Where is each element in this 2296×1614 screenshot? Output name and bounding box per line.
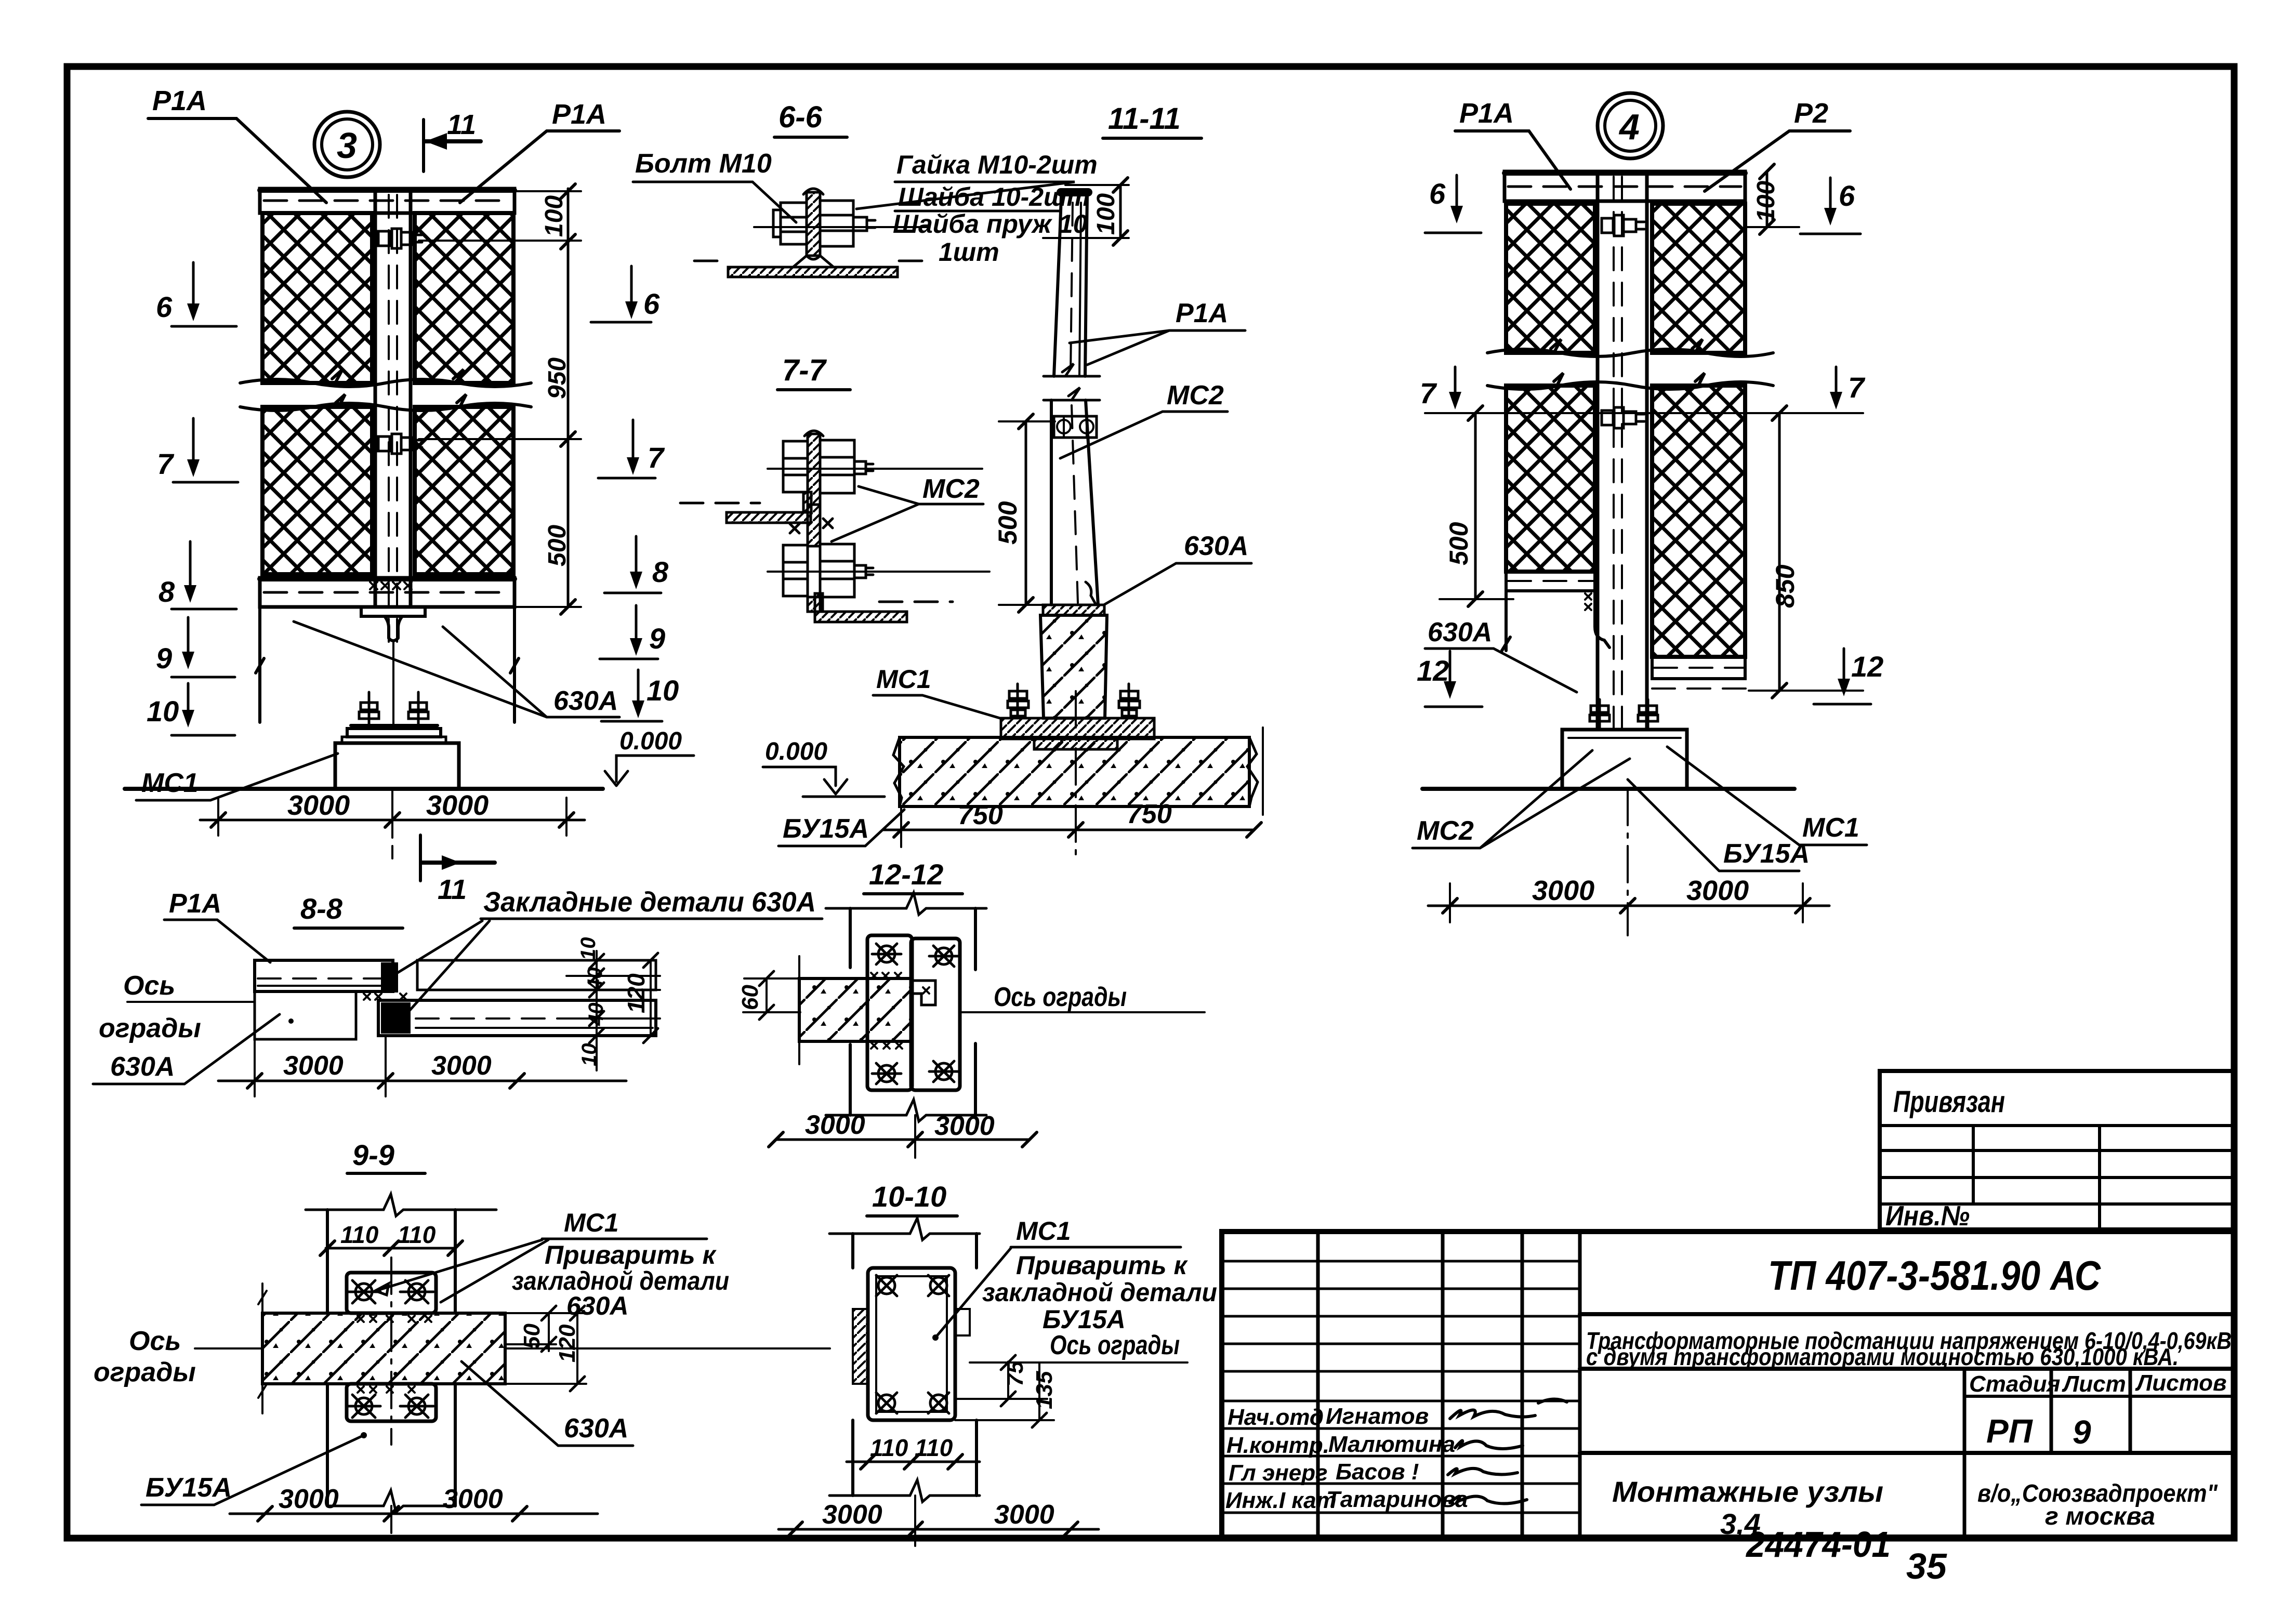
svg-text:Н.контр.: Н.контр. (1226, 1433, 1329, 1458)
svg-text:850: 850 (1771, 564, 1800, 608)
view 4 marker circle (1598, 93, 1663, 158)
anchor bolt right (11-11) (1119, 684, 1140, 718)
svg-text:8-8: 8-8 (300, 892, 343, 925)
concrete pedestal (11-11) (1040, 615, 1107, 718)
svg-text:40: 40 (585, 1003, 608, 1027)
dimension 3000 3000 (view 3) (200, 819, 585, 822)
svg-text:МС2: МС2 (1167, 380, 1224, 411)
corner bracket left (view 4) (1595, 591, 1609, 647)
weld x marks 7-7 (790, 519, 833, 533)
foundation slab (11-11) (900, 737, 1249, 806)
svg-text:Р1А: Р1А (1176, 298, 1228, 328)
bottom break line (12-12) (826, 1100, 986, 1121)
svg-text:БУ15А: БУ15А (783, 814, 869, 844)
bottom break (10-10) (829, 1480, 980, 1502)
svg-text:3000: 3000 (426, 790, 489, 821)
post lower part (11-11) (1051, 400, 1098, 605)
leaders MC1 to bolts (9-9) (375, 1240, 542, 1295)
dim 850 (view 4) (1778, 413, 1781, 691)
top rail (view 4) (1505, 171, 1745, 201)
slab break marks (11-11) (893, 737, 1258, 806)
svg-text:Приварить к: Приварить к (1016, 1251, 1189, 1280)
svg-text:МС2: МС2 (922, 474, 980, 504)
svg-text:3000: 3000 (1686, 875, 1749, 906)
MC2 bracket on post (11-11) (1054, 416, 1097, 438)
svg-text:Гл энерг: Гл энерг (1229, 1460, 1328, 1486)
privyazan table column lines (1973, 1126, 2100, 1229)
post upper part (11-11) (1054, 196, 1087, 376)
centre axis (view 4) (1627, 789, 1629, 935)
svg-text:Р1А: Р1А (152, 85, 207, 116)
svg-text:закладной детали: закладной детали (982, 1278, 1217, 1307)
upper base plate (9-9) (347, 1273, 436, 1313)
embedded strip left (10-10) (853, 1309, 868, 1384)
section mark 9 left (187, 617, 190, 664)
dim 500 (view 4) (1474, 413, 1477, 599)
svg-text:3000: 3000 (283, 1051, 344, 1081)
svg-text:100: 100 (1092, 193, 1120, 235)
weld marks upper (9-9) (358, 1316, 431, 1322)
plan bolt lower left (9-9) (347, 1395, 380, 1418)
svg-text:Инв.№: Инв.№ (1885, 1200, 1970, 1232)
svg-text:БУ15А: БУ15А (146, 1473, 232, 1503)
section mark 7 left (192, 418, 195, 472)
signature squiggle 2 (1455, 1440, 1523, 1449)
bottom rail right (view 4) (1652, 657, 1745, 679)
svg-text:7: 7 (1848, 371, 1866, 404)
svg-text:630А: 630А (553, 686, 618, 716)
dim 110 110 (10-10) (847, 1461, 980, 1463)
section mark 8 left (189, 541, 192, 598)
section mark 11 bottom (419, 835, 422, 881)
dim 500 (11-11) (1025, 421, 1027, 605)
plan bolt lower right (9-9) (400, 1395, 433, 1418)
svg-text:35: 35 (1906, 1546, 1947, 1586)
extension lines dims (9-9) (507, 1313, 586, 1384)
svg-text:1шт: 1шт (939, 237, 999, 267)
stage value row line (1580, 1451, 2234, 1455)
svg-text:110: 110 (340, 1221, 379, 1248)
right base plate (12-12) (911, 938, 960, 1090)
svg-text:110: 110 (870, 1434, 908, 1461)
svg-text:630А: 630А (1428, 617, 1492, 647)
rails in plan (12-12) (850, 908, 975, 1115)
svg-text:8: 8 (159, 575, 175, 608)
svg-text:3: 3 (337, 125, 357, 166)
plan bolt upper right (9-9) (400, 1280, 433, 1303)
bolt 7-7 lower left stack (783, 545, 808, 596)
svg-text:МС1: МС1 (141, 768, 199, 798)
plan bolts (12-12) (872, 944, 901, 964)
side posts below rail (view 3) (256, 607, 519, 722)
svg-text:6: 6 (1839, 179, 1855, 212)
description cell line (1580, 1367, 2234, 1371)
svg-text:110: 110 (915, 1434, 953, 1461)
bolt 7-7 centre plate lower (808, 597, 820, 612)
bolt 6-6 weld flare (793, 256, 834, 267)
svg-text:Р1А: Р1А (1459, 98, 1514, 129)
svg-text:110: 110 (398, 1221, 436, 1248)
plan bolt upper left (9-9) (347, 1280, 380, 1303)
ground line (view 3) (125, 787, 603, 791)
support bracket under rail (view 3) (361, 607, 425, 641)
panel break wavy lines (view 3) (240, 369, 531, 387)
dim 60 (12-12) (766, 978, 768, 1012)
mesh panel lower left (view 4) (1506, 386, 1595, 572)
svg-text:10: 10 (147, 695, 179, 727)
svg-text:МС1: МС1 (1016, 1216, 1071, 1246)
stage table verticals (1964, 1369, 2130, 1537)
svg-text:75: 75 (1002, 1361, 1028, 1386)
bolt 7-7 upper centre plate (808, 434, 820, 505)
svg-text:Гайка М10-2шт: Гайка М10-2шт (896, 150, 1098, 179)
stage table header underline (1964, 1395, 2234, 1398)
svg-text:3000: 3000 (1532, 875, 1594, 906)
beam hook detail (12-12) (911, 981, 935, 1005)
svg-text:10: 10 (578, 1043, 601, 1067)
svg-text:100: 100 (540, 195, 568, 237)
svg-text:10: 10 (577, 937, 600, 961)
dim 120 (8-8) (650, 960, 652, 1036)
bolt 7-7 centre plate mid (808, 505, 820, 546)
ground line (view 4) (1422, 787, 1794, 791)
leader MC1 (10-10) (935, 1248, 1011, 1338)
extension lines right (view 3) (419, 191, 581, 607)
svg-text:6-6: 6-6 (778, 100, 823, 134)
weld x marks on bottom rail (view 3) (370, 582, 412, 589)
svg-text:ТП 407-3-581.90 АС: ТП 407-3-581.90 АС (1768, 1252, 2101, 1299)
svg-text:24474-01: 24474-01 (1745, 1524, 1891, 1565)
svg-text:9-9: 9-9 (352, 1139, 394, 1171)
centre axis (9-9) (390, 1258, 392, 1445)
right dimension chain line (view 3) (567, 189, 570, 607)
svg-text:500: 500 (544, 525, 571, 566)
dim 750 750 (11-11) (883, 829, 1254, 831)
dim 110 110 (9-9) (326, 1247, 455, 1250)
dim 75 (10-10) (1007, 1362, 1009, 1399)
svg-text:3000: 3000 (279, 1484, 339, 1514)
svg-text:3000: 3000 (443, 1484, 503, 1514)
section cut line level 7 (view 4) (1425, 412, 1863, 414)
top rail (view 3) (260, 189, 514, 213)
post dashed centerlines (view 3) (389, 195, 397, 643)
signature squiggle 1 (1450, 1399, 1567, 1419)
upper right panel band (8-8) (417, 960, 656, 990)
svg-text:Приварить к: Приварить к (545, 1240, 717, 1269)
svg-text:100: 100 (1752, 181, 1780, 222)
weld marks lower (9-9) (358, 1386, 415, 1393)
svg-text:4: 4 (1618, 107, 1640, 147)
bolt 7-7 lower right stack (820, 544, 873, 597)
svg-text:Р2: Р2 (1794, 98, 1828, 129)
mesh panel lower left (view 3) (262, 407, 372, 574)
bolt 6-6 centre plate (807, 192, 820, 256)
svg-text:0.000: 0.000 (765, 738, 827, 765)
closure plate black (8-8) (381, 1002, 411, 1034)
weld marks (12-12) (871, 973, 929, 1049)
svg-text:3000: 3000 (994, 1500, 1054, 1530)
view 3 marker circle (314, 112, 380, 177)
section mark 6 left (192, 262, 195, 316)
svg-text:Игнатов: Игнатов (1326, 1404, 1429, 1429)
dash lines beside plate 6-6 (694, 260, 933, 262)
svg-text:РП: РП (1986, 1412, 2034, 1450)
svg-text:630А: 630А (110, 1052, 175, 1082)
dim 3000 3000 (9-9) (230, 1513, 598, 1515)
svg-text:630А: 630А (1184, 531, 1248, 561)
section mark 9 right (635, 605, 638, 651)
svg-text:750: 750 (958, 800, 1003, 830)
beam end extension (12-12) (798, 956, 800, 1064)
post bolt cluster upper (view 3) (378, 229, 422, 248)
dash dot lines 7-7 (680, 503, 953, 602)
section mark 10 right (637, 670, 640, 713)
svg-text:6: 6 (643, 287, 660, 320)
svg-text:Болт М10: Болт М10 (635, 149, 772, 179)
section mark 10 left (187, 683, 190, 722)
svg-text:12: 12 (1851, 650, 1883, 683)
mesh panel lower right (view 4) (1652, 386, 1745, 657)
concrete fence beam (12-12) (799, 978, 911, 1041)
rails in plan upper (9-9) (327, 1210, 455, 1313)
top break line (9-9) (306, 1194, 496, 1216)
svg-text:500: 500 (993, 501, 1022, 545)
post bolt cluster lower (view 3) (378, 434, 422, 454)
left base plate (12-12) (867, 935, 912, 1090)
svg-text:40: 40 (584, 968, 606, 991)
svg-text:9: 9 (156, 642, 172, 674)
svg-text:500: 500 (1444, 522, 1473, 565)
svg-text:Ось: Ось (123, 971, 175, 1001)
svg-text:10: 10 (646, 674, 679, 707)
small dim chain (8-8) (596, 951, 598, 1070)
bottom break (9-9) (327, 1490, 455, 1512)
svg-text:6: 6 (1429, 177, 1446, 210)
foundation pedestal (view 3) (335, 743, 459, 789)
svg-text:ограды: ограды (99, 1013, 201, 1043)
pedestal (view 4) (1562, 730, 1687, 789)
svg-text:МС2: МС2 (1417, 816, 1474, 846)
right angle bracket 7-7 (815, 612, 907, 622)
svg-text:Р1А: Р1А (552, 99, 606, 130)
svg-text:11-11: 11-11 (1108, 102, 1181, 136)
svg-text:с двумя трансформаторами мощно: с двумя трансформаторами мощностью 630,1… (1586, 1343, 2179, 1370)
dim 3000 3000 (8-8) (218, 1080, 626, 1082)
dim 100 (view 4) (1766, 171, 1769, 227)
base plate band (11-11) (1001, 718, 1154, 739)
privyazan table row lines (1880, 1126, 2234, 1204)
embedded strip right (10-10) (955, 1309, 970, 1335)
svg-text:11: 11 (447, 109, 476, 140)
signature squiggle 3 (1448, 1469, 1518, 1475)
svg-text:3000: 3000 (431, 1051, 492, 1081)
bolt 7-7 lower axis (768, 571, 989, 573)
post top cap (11-11) (1061, 188, 1088, 196)
beam end extension lines (9-9) (258, 1284, 267, 1413)
svg-text:Монтажные узлы: Монтажные узлы (1612, 1475, 1883, 1508)
svg-text:Татаринова: Татаринова (1326, 1487, 1468, 1512)
svg-text:135: 135 (1032, 1371, 1057, 1409)
post flange lines (view 3) (375, 189, 411, 607)
svg-text:Р1А: Р1А (169, 889, 221, 919)
svg-text:950: 950 (544, 358, 571, 399)
bolt 6-6 axis line (754, 226, 928, 228)
dim 3000 3000 (10-10) (778, 1528, 1099, 1531)
post end plate black (8-8) (381, 962, 398, 993)
mesh panel upper left (view 3) (262, 213, 372, 383)
svg-text:Закладные детали 630А: Закладные детали 630А (483, 887, 816, 918)
rail flange plate 6-6 (728, 267, 898, 277)
dim 50 (9-9) (548, 1313, 550, 1351)
mesh panel upper left (view 4) (1506, 204, 1595, 353)
anchor bolts on pedestal (view 4) (1590, 699, 1658, 730)
mesh panel upper right (view 4) (1652, 204, 1745, 353)
dim 135 (10-10) (1038, 1362, 1040, 1420)
post bolt cluster middle (view 4) (1602, 407, 1644, 428)
lower base plate (9-9) (347, 1384, 436, 1421)
svg-text:Лист: Лист (2062, 1371, 2126, 1397)
anchor bolts (view 3) (359, 692, 428, 726)
doc number cell line (1580, 1312, 2234, 1316)
svg-text:3000: 3000 (805, 1110, 865, 1140)
svg-text:БУ15А: БУ15А (1723, 839, 1810, 869)
svg-text:Инж.I кат: Инж.I кат (1225, 1488, 1337, 1513)
post left line below panel (view 4) (1502, 591, 1510, 651)
dim 100 (11-11) (1119, 185, 1122, 238)
svg-text:3000: 3000 (822, 1500, 882, 1530)
signature table column lines (1318, 1232, 1580, 1537)
section mark 6 right (630, 266, 633, 314)
svg-text:3000: 3000 (934, 1111, 995, 1141)
svg-text:7-7: 7-7 (782, 353, 827, 387)
privyazan table box (1880, 1071, 2234, 1229)
upper left rail in plan (8-8) (255, 960, 393, 991)
svg-text:Ось: Ось (129, 1326, 181, 1356)
svg-text:Нач.отд: Нач.отд (1228, 1405, 1324, 1430)
base plate (10-10) (868, 1268, 955, 1420)
svg-text:0.000: 0.000 (619, 727, 682, 755)
post base hook (11-11) (1086, 582, 1096, 605)
svg-text:630А: 630А (564, 1413, 628, 1444)
plan bolts (10-10) (876, 1275, 897, 1296)
panel break wavy lines (view 4) (1487, 339, 1773, 356)
axis line (12-12) (743, 1011, 1205, 1013)
svg-text:10-10: 10-10 (872, 1180, 946, 1213)
svg-text:7: 7 (157, 447, 175, 480)
base plate stack (view 3) (351, 724, 438, 727)
main title block outer box (1222, 1232, 2234, 1537)
concrete fence beam (9-9) (262, 1313, 505, 1384)
top break line (12-12) (826, 893, 986, 915)
top break line (10-10) (829, 1218, 980, 1240)
svg-text:МС1: МС1 (1802, 813, 1859, 843)
svg-text:3000: 3000 (287, 790, 350, 821)
bolt 7-7 upper right stack (820, 440, 873, 493)
svg-text:Стадия: Стадия (1969, 1371, 2060, 1397)
svg-text:750: 750 (1127, 799, 1172, 829)
svg-text:120: 120 (623, 973, 650, 1013)
svg-text:г москва: г москва (2045, 1503, 2155, 1530)
svg-text:Ось ограды: Ось ограды (994, 982, 1127, 1012)
left angle bracket 7-7 (727, 512, 811, 523)
post bolt cluster upper (view 4) (1602, 215, 1644, 236)
svg-text:МС1: МС1 (564, 1208, 619, 1237)
section mark 11 top (422, 120, 425, 171)
svg-text:МС1: МС1 (876, 665, 931, 694)
lower left panel band (8-8) (255, 991, 356, 1039)
svg-text:60: 60 (737, 985, 763, 1010)
svg-text:7: 7 (1420, 377, 1437, 409)
section mark 8 right (635, 536, 638, 584)
bolt 7-7 upper axis (768, 468, 982, 470)
dim 3000 3000 (view 4) (1428, 905, 1829, 907)
svg-text:6: 6 (156, 290, 173, 323)
signature table row lines (1222, 1261, 1580, 1513)
centre axis (11-11) (1075, 691, 1077, 857)
svg-text:Привязан: Привязан (1893, 1085, 2005, 1119)
bottom rail (view 3) (260, 578, 514, 607)
svg-text:11: 11 (438, 874, 467, 905)
section mark 7 right (632, 420, 635, 470)
rails in plan lower (9-9) (327, 1384, 455, 1506)
mesh panel upper right (view 3) (415, 213, 513, 383)
signature squiggle 4 (1450, 1496, 1527, 1503)
svg-text:БУ15А: БУ15А (1043, 1305, 1126, 1334)
post flange lines (view 4) (1598, 171, 1647, 730)
post break lines (11-11) (1044, 364, 1100, 400)
dim 120 (9-9) (576, 1313, 578, 1384)
bolt 6-6 right nut stack (820, 201, 875, 246)
svg-text:Ось ограды: Ось ограды (1050, 1330, 1180, 1360)
svg-text:9: 9 (649, 622, 665, 655)
bolt 7-7 upper left stack (783, 441, 808, 492)
svg-text:8: 8 (652, 555, 669, 588)
svg-text:ограды: ограды (94, 1357, 196, 1387)
embedded plate (11-11) (1043, 605, 1104, 615)
bottom rail left (view 4) (1506, 572, 1595, 591)
svg-text:120: 120 (555, 1324, 580, 1362)
svg-text:12-12: 12-12 (869, 858, 943, 891)
svg-text:Басов !: Басов ! (1336, 1459, 1419, 1485)
svg-text:Малютина: Малютина (1328, 1432, 1455, 1457)
rails in plan (10-10) (853, 1234, 977, 1496)
svg-text:Листов: Листов (2135, 1370, 2227, 1396)
mesh panel lower right (view 3) (415, 407, 513, 574)
lower right rail in plan (8-8) (378, 1000, 656, 1036)
svg-text:9: 9 (2073, 1413, 2091, 1451)
bolt 6-6 left nut stack (773, 203, 807, 244)
weld marks centre (8-8) (364, 994, 406, 1000)
leaders to embedded plates (8-8) (391, 921, 482, 977)
centre axis (view 3) (391, 789, 393, 858)
anchor bolt left (11-11) (1008, 684, 1028, 718)
svg-text:7: 7 (648, 441, 665, 474)
dim 3000 3000 (12-12) (776, 1139, 1030, 1141)
